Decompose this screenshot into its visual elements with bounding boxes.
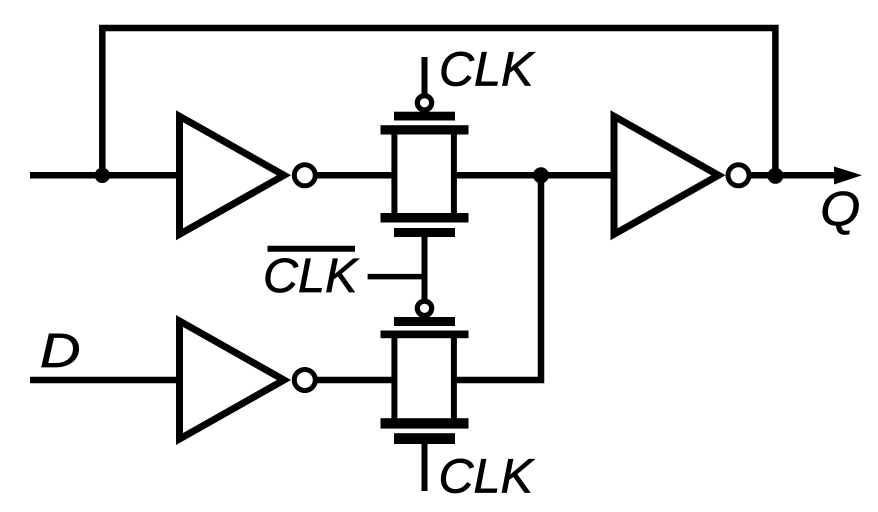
svg-text:Q: Q [820, 183, 860, 237]
svg-text:CLK: CLK [439, 450, 536, 504]
svg-text:D: D [40, 324, 81, 378]
svg-text:CLK: CLK [263, 249, 360, 303]
svg-text:CLK: CLK [439, 43, 536, 97]
